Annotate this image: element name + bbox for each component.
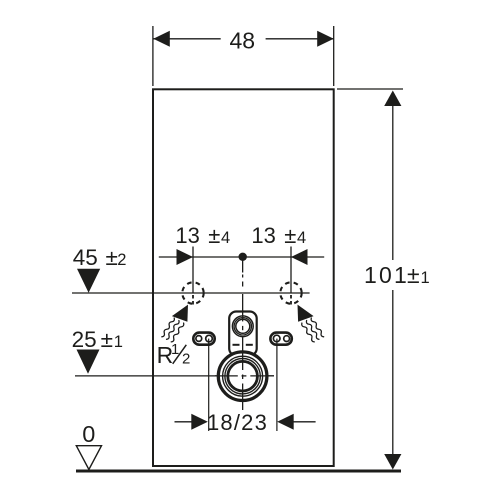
svg-text:4: 4 — [221, 229, 230, 247]
svg-text:1: 1 — [114, 333, 123, 351]
svg-text:4: 4 — [297, 229, 306, 247]
svg-text:±: ± — [284, 223, 296, 248]
svg-text:1: 1 — [421, 269, 430, 287]
svg-text:13: 13 — [175, 223, 199, 248]
svg-text:0: 0 — [82, 421, 95, 447]
svg-text:±: ± — [407, 262, 420, 288]
svg-text:25: 25 — [72, 327, 97, 352]
svg-text:2: 2 — [117, 251, 126, 269]
svg-text:18/23: 18/23 — [207, 410, 268, 435]
svg-text:2: 2 — [182, 351, 190, 368]
svg-text:48: 48 — [230, 28, 256, 54]
svg-text:45: 45 — [73, 245, 98, 270]
svg-text:101: 101 — [364, 262, 409, 288]
svg-text:±: ± — [208, 223, 220, 248]
svg-text:13: 13 — [251, 223, 275, 248]
svg-text:±: ± — [106, 245, 118, 270]
svg-text:±: ± — [101, 327, 113, 352]
